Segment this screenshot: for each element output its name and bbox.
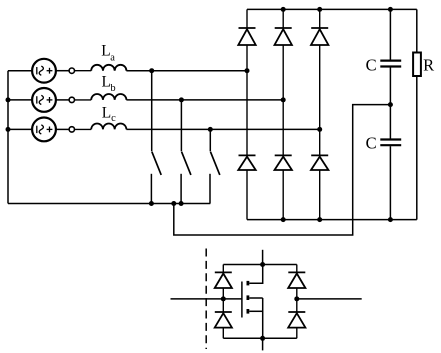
diode bridge BR	[288, 299, 305, 338]
AC source c	[32, 117, 56, 141]
diode D4 lower leg1	[238, 71, 255, 220]
wire bottom rail	[247, 219, 417, 221]
diode D6 lower leg3	[311, 129, 328, 219]
capacitor C2	[380, 105, 401, 220]
diode bridge BL	[215, 299, 232, 338]
node phase a leg1	[245, 68, 250, 73]
node bottom rail leg3	[317, 217, 322, 222]
inductor Lb	[75, 94, 127, 100]
node phase c leg3	[317, 127, 322, 132]
node phase b switch	[179, 97, 184, 102]
label Lb	[102, 74, 116, 95]
node bottom rail cap	[388, 217, 393, 222]
node rail S1	[149, 201, 154, 206]
diode bridge TR	[288, 265, 305, 299]
node detail right	[294, 296, 299, 301]
switch S3	[210, 129, 220, 203]
node rail S2	[179, 201, 184, 206]
diode D2 upper leg2	[275, 9, 292, 100]
label C1	[366, 55, 377, 74]
node top rail leg3	[317, 7, 322, 12]
wire detail bridge top rail	[223, 264, 296, 266]
wire top rail	[247, 8, 417, 10]
node cap midpoint	[388, 102, 393, 107]
label C2	[366, 133, 377, 152]
diode bridge TL	[215, 265, 232, 299]
wire switch common rail	[8, 203, 210, 205]
wire phase c	[126, 128, 319, 130]
diode D5 lower leg2	[275, 100, 292, 220]
inductor Lc	[75, 124, 127, 130]
AC source b	[32, 88, 56, 112]
capacitor C1	[380, 9, 401, 104]
node rail tap	[171, 201, 176, 206]
node top rail leg2	[281, 7, 286, 12]
wire source b to bus	[8, 99, 32, 101]
AC source a	[32, 59, 56, 83]
node bus c	[6, 127, 11, 132]
node phase c switch	[208, 127, 213, 132]
switch S1	[151, 71, 161, 204]
diode D3 upper leg3	[311, 9, 328, 129]
node detail bottom	[260, 336, 265, 341]
wire phase a	[126, 70, 247, 72]
wire source c to bus	[8, 128, 32, 130]
wire detail right terminal	[297, 298, 362, 300]
wire detail bottom stub	[262, 338, 264, 350]
svg-text:b: b	[110, 83, 115, 94]
resistor R	[413, 9, 421, 219]
svg-text:C: C	[366, 133, 377, 152]
diode D1 upper leg1	[238, 9, 255, 70]
label R	[423, 55, 434, 74]
label La	[101, 42, 115, 63]
svg-text:L: L	[102, 105, 111, 122]
node bottom rail leg2	[281, 217, 286, 222]
wire phase b	[126, 99, 283, 101]
node detail top	[260, 262, 265, 267]
node top rail cap	[388, 7, 393, 12]
svg-text:R: R	[423, 55, 434, 74]
node phase a switch	[149, 68, 154, 73]
label Lc	[102, 105, 116, 124]
switch S2	[181, 100, 191, 204]
svg-text:a: a	[110, 52, 115, 63]
MOSFET Q1	[242, 265, 263, 339]
wire detail left terminal	[171, 298, 242, 300]
wire source a to bus	[8, 70, 32, 72]
wire detail top stub	[262, 250, 264, 265]
node detail left	[221, 296, 226, 301]
terminal b	[56, 97, 75, 102]
terminal a	[56, 68, 75, 73]
svg-text:L: L	[101, 42, 110, 59]
inductor La	[75, 65, 127, 71]
wire left bus vertical	[7, 71, 9, 204]
svg-text:C: C	[366, 55, 377, 74]
svg-text:c: c	[111, 113, 116, 124]
dashed boundary line	[205, 249, 207, 350]
terminal c	[56, 127, 75, 132]
node bus b	[6, 97, 11, 102]
wire neutral tap	[174, 105, 391, 235]
wire detail bridge bottom rail	[223, 337, 296, 339]
node phase b leg2	[281, 97, 286, 102]
